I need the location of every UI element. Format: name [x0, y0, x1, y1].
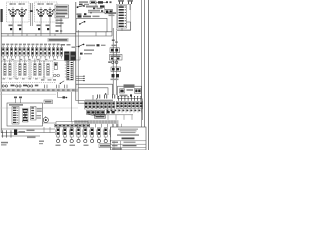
switch unit SW13: [14, 46, 17, 59]
gray band main harness: [0, 89, 78, 92]
top right row 2 label: [86, 6, 98, 8]
indicator lamps row (pairs): [2, 85, 4, 87]
wire row text 2: [27, 130, 35, 132]
switch unit SW18: [35, 46, 38, 59]
fuse F2: [128, 1, 130, 5]
machine compartment box outline: [7, 103, 43, 126]
aux motor M2: [43, 117, 48, 122]
control box inner relay: [135, 89, 142, 94]
element stack E3a: [34, 64, 36, 76]
dashed wire row: [1, 82, 56, 84]
element wires E1: [4, 59, 6, 64]
element stack E2a: [19, 64, 21, 76]
oven lamp switch block outline: [55, 5, 69, 18]
L wire from x76 down: [76, 84, 93, 100]
element enclosure box E2 (dashed): [17, 62, 29, 79]
terminal block TB1 outer enclosure: [116, 4, 131, 30]
bottom lamp under SW34: [84, 139, 87, 142]
ladder rung wires left: [76, 75, 84, 77]
element wires E3: [34, 59, 36, 64]
board relay RL2: [88, 102, 91, 110]
switch row labels: [2, 44, 5, 46]
oven thermostat cluster: [78, 44, 106, 48]
clock timer box outline: [76, 18, 107, 32]
marks left of lamps: [108, 61, 111, 63]
rail tick marks: [112, 40, 115, 41]
bottom lamp under SW32: [70, 139, 73, 142]
compartment label: [9, 104, 23, 106]
board relay RL3: [92, 102, 95, 110]
second vertical bus at x78: [77, 30, 79, 88]
label RR above switch S3: [38, 3, 41, 5]
title table line 3: [111, 147, 147, 149]
element stack E1a: [4, 64, 6, 76]
connector box under funnel: [95, 115, 106, 118]
bottom lamp under SW37: [104, 139, 107, 142]
control box outline: [118, 86, 142, 98]
top right row 4 marks: [77, 13, 82, 15]
switch unit SW22: [52, 46, 55, 59]
row 3 tick: [101, 10, 103, 12]
page background: [0, 0, 150, 150]
plug P4: [101, 111, 105, 115]
collector stubs down: [107, 115, 109, 120]
switch unit SW11: [6, 46, 9, 59]
wire bottom horizontal 2: [1, 135, 40, 137]
wire x116 drop: [115, 31, 117, 81]
terminal block TB1 stack: [118, 6, 127, 29]
terminal label P2: [18, 25, 22, 27]
title text line 3: [121, 132, 136, 133]
switch unit SW23: [56, 46, 59, 59]
title table row 2: [112, 145, 118, 146]
element stack E2b: [24, 64, 26, 76]
switch unit SW19: [40, 46, 43, 59]
board label row: [85, 100, 113, 101]
plug P1: [87, 111, 91, 115]
infinite switch S4: [45, 7, 55, 17]
compartment side text: [37, 108, 42, 110]
wire bottom vertical stubs: [43, 127, 45, 133]
board relay RL6: [104, 102, 107, 110]
element stack E4a: [47, 64, 49, 76]
board relay RL5: [100, 102, 103, 110]
board relay RR5: [132, 102, 135, 109]
top right row 3 relay: [105, 10, 113, 14]
thin line under band: [0, 93, 56, 95]
wire right drop from row3: [111, 14, 113, 36]
board relay RR4: [128, 102, 131, 109]
fuse F1: [119, 1, 121, 5]
board relay RL1: [85, 102, 88, 110]
label LF above switch S2: [19, 3, 22, 5]
bus wire lower horizontal: [1, 35, 112, 37]
wire thermostat to bus: [76, 46, 79, 48]
thermostat lower text: [84, 49, 94, 51]
bus drop wires: [7, 34, 9, 36]
wire lamp block down: [60, 18, 62, 34]
mid-right component C: [111, 67, 121, 72]
board relay RR7: [140, 102, 143, 109]
oven selector switch stack: [67, 61, 74, 81]
control box inner text: [127, 89, 134, 91]
junction drops mid: [95, 32, 97, 36]
top right row 3 label: [88, 10, 100, 12]
title table line 1: [111, 140, 147, 142]
board relay RL7: [108, 102, 111, 110]
tiny labels above dashed row: [3, 78, 6, 79]
element stack E1b: [9, 64, 11, 76]
lamp block row 1: [56, 6, 68, 8]
bottom switch SW32: [69, 128, 73, 137]
board pin ticks: [97, 95, 99, 99]
right drops to harness: [117, 109, 119, 113]
dark component on wire: [14, 130, 17, 135]
control box top label: [124, 84, 135, 87]
bottom switch SW33: [76, 128, 80, 137]
border frame right line 1: [141, 0, 142, 150]
terminal strip L1-N-L2: [55, 124, 58, 127]
wire S2 to bus: [21, 16, 23, 34]
wires between element boxes: [14, 61, 16, 80]
title text line 1: [118, 129, 138, 130]
board relay RL8: [112, 102, 115, 110]
flecks above dashed row right: [41, 79, 45, 80]
main vertical bus at x76: [75, 2, 77, 88]
wires above terminal strip: [42, 122, 56, 124]
mid-right lamps: [112, 61, 115, 64]
clock contact arrow: [80, 22, 85, 25]
top right row 1 label: [79, 1, 88, 3]
label RF above switch S1: [10, 3, 13, 5]
TB1 side text: [109, 12, 117, 14]
wire fuses down: [120, 4, 122, 6]
board relay RR3: [124, 102, 127, 109]
infinite switch S2: [17, 7, 27, 17]
marks between lamp pairs: [11, 85, 15, 87]
top right row 1 extra marks: [79, 4, 83, 6]
crossing ticks: [1, 130, 3, 137]
pilot lamps: [54, 74, 57, 77]
bottom switch SW37: [103, 128, 107, 137]
wire into title block area: [117, 124, 119, 127]
small relay K1: [54, 63, 57, 70]
motor component M1: [12, 107, 19, 125]
wire TB1 bottom down: [121, 28, 123, 31]
wire row text 1: [19, 131, 26, 133]
clock timer label row above box: [78, 15, 82, 17]
top right row 2 switch symbol: [77, 6, 84, 8]
mid-right text label: [112, 45, 118, 47]
bottom left tiny text pair: [39, 141, 44, 142]
component K3: [31, 107, 37, 121]
border frame right line 2: [144, 0, 145, 150]
terminal label P3: [37, 25, 41, 27]
wire S3 to bus: [40, 16, 42, 34]
tiny labels under comb: [3, 59, 5, 60]
board relay RR2: [120, 102, 123, 109]
relay component K2 with winding cross: [23, 109, 29, 123]
switch unit SW14: [19, 46, 22, 59]
title block outline: [111, 127, 147, 150]
small box above right: [44, 100, 53, 104]
bottom switch SW38: [109, 128, 113, 137]
L wire from x78 down: [78, 88, 96, 103]
top right row 2 extra: [93, 8, 95, 10]
mid-right component D marks: [112, 74, 115, 77]
dark block pair right of comb: [64, 52, 69, 61]
lower harness hatch: [75, 120, 77, 123]
ticks above band right half: [44, 85, 46, 89]
title color code line: [117, 134, 139, 135]
bottom switch SW35: [90, 128, 94, 137]
infinite switch S1: [8, 7, 18, 17]
element enclosure box E4 (partial): [45, 62, 54, 79]
bottom lamp under SW30: [57, 139, 60, 142]
top right row 2 terminal: [100, 5, 105, 7]
border frame right line 3: [148, 0, 149, 150]
mid-right component A: [110, 48, 120, 53]
board relay RL4: [96, 102, 99, 110]
labels above dark blocks: [61, 44, 66, 46]
label LR above switch S4: [47, 3, 50, 5]
bottom lamp under SW35: [91, 139, 94, 142]
wire row3 to bus: [88, 12, 105, 14]
control box inner component: [120, 89, 125, 93]
element enclosure box E1 (dashed): [2, 62, 14, 79]
bottom switch SW34: [83, 128, 87, 137]
plug P2: [91, 111, 95, 115]
compartment boundary light line: [0, 107, 78, 109]
bottom switch SW30: [56, 128, 60, 137]
switch unit SW12: [10, 46, 13, 59]
board relay RR6: [136, 102, 139, 109]
switch unit SW10: [2, 46, 5, 59]
thin collector wire right: [104, 114, 133, 116]
terminal label P1: [9, 25, 13, 27]
harness band flecks: [2, 89, 5, 91]
lamp block row 4: [56, 16, 65, 18]
wire S4 to bus: [49, 16, 51, 34]
loop wire inner: [78, 88, 108, 95]
bottom text block: [1, 142, 8, 144]
plug P3: [96, 111, 100, 115]
wire pair between boxes: [30, 3, 32, 26]
harness drops: [77, 124, 79, 128]
bus wire upper horizontal: [1, 33, 76, 35]
right marks under row: [107, 110, 109, 112]
lamp block note text: [56, 20, 63, 22]
element enclosure box E3 (dashed): [32, 62, 44, 79]
row 1 right ticks: [106, 1, 108, 3]
terminal label P4: [46, 25, 50, 27]
wire labels above box: [14, 97, 17, 99]
title table row 1: [112, 142, 118, 143]
lower harness band: [74, 120, 119, 124]
funnel wires: [88, 114, 96, 116]
board tick row right: [118, 97, 120, 101]
gray section band label: [48, 38, 69, 41]
lamp block row 3: [56, 13, 68, 15]
wire L1 left rail: [0, 11, 2, 133]
drop wire band to strip: [71, 92, 73, 122]
switch unit SW24: [60, 46, 63, 59]
door switch on row 1: [98, 1, 103, 3]
wire TB1 right down: [127, 21, 131, 23]
wire S1 to bus: [12, 16, 14, 34]
arrow contact right of dashed row: [60, 81, 64, 84]
surface switch enclosure box A (dashed): [7, 2, 30, 22]
element wires E2: [19, 59, 21, 64]
wire bottom horizontal 1: [1, 132, 55, 134]
mid row lower wire stubs: [1, 60, 76, 62]
plug extra marks: [107, 111, 110, 114]
loop wire outer: [76, 84, 113, 95]
bottom tiny text under lamps: [56, 145, 61, 146]
title table divider 2: [113, 141, 115, 150]
switch unit SW20: [44, 46, 47, 59]
bottom lamp under SW33: [77, 139, 80, 142]
lamp block bottom marks: [56, 30, 59, 32]
top right row 1 wire: [96, 1, 108, 3]
selector side ticks: [65, 61, 67, 63]
bottom switch SW31: [62, 128, 66, 137]
drop wires 113 116 to board: [112, 80, 114, 95]
surface switch enclosure box B (dashed): [35, 2, 58, 22]
title bold name: [122, 138, 135, 140]
wire clock box bottom to right: [76, 31, 112, 33]
switch unit SW21: [48, 46, 51, 59]
row connect stubs: [95, 2, 97, 6]
mid-right component B: [110, 55, 123, 61]
node L1 label: [1, 9, 3, 22]
wire row text 3: [27, 136, 36, 138]
title text line 2: [120, 130, 137, 131]
wire control box right down: [142, 99, 144, 121]
lamp block row 2: [56, 9, 68, 11]
title table divider: [120, 141, 122, 150]
L-wire from band to right: [58, 92, 67, 98]
control box lower text: [120, 95, 128, 97]
bottom small box: [99, 144, 111, 148]
stubs into title block top: [113, 124, 115, 127]
board relay RR1: [116, 102, 119, 109]
bottom lamp under SW38: [110, 139, 113, 142]
bottom lamp under SW31: [63, 139, 66, 142]
title table line 2: [111, 143, 147, 145]
title table row 3: [112, 148, 122, 149]
switch unit SW15: [23, 46, 26, 59]
switch unit SW16: [27, 46, 30, 59]
bottom lamp under SW36: [97, 139, 100, 142]
switch unit SW17: [31, 46, 34, 59]
junction marks row: [10, 28, 12, 30]
top right row 1 component: [90, 1, 96, 4]
infinite switch S3: [36, 7, 46, 17]
element stack E3b: [39, 64, 41, 76]
wire x113 drop: [112, 28, 114, 80]
bottom switch SW36: [96, 128, 100, 137]
wire bottom horizontal 0: [1, 128, 55, 130]
